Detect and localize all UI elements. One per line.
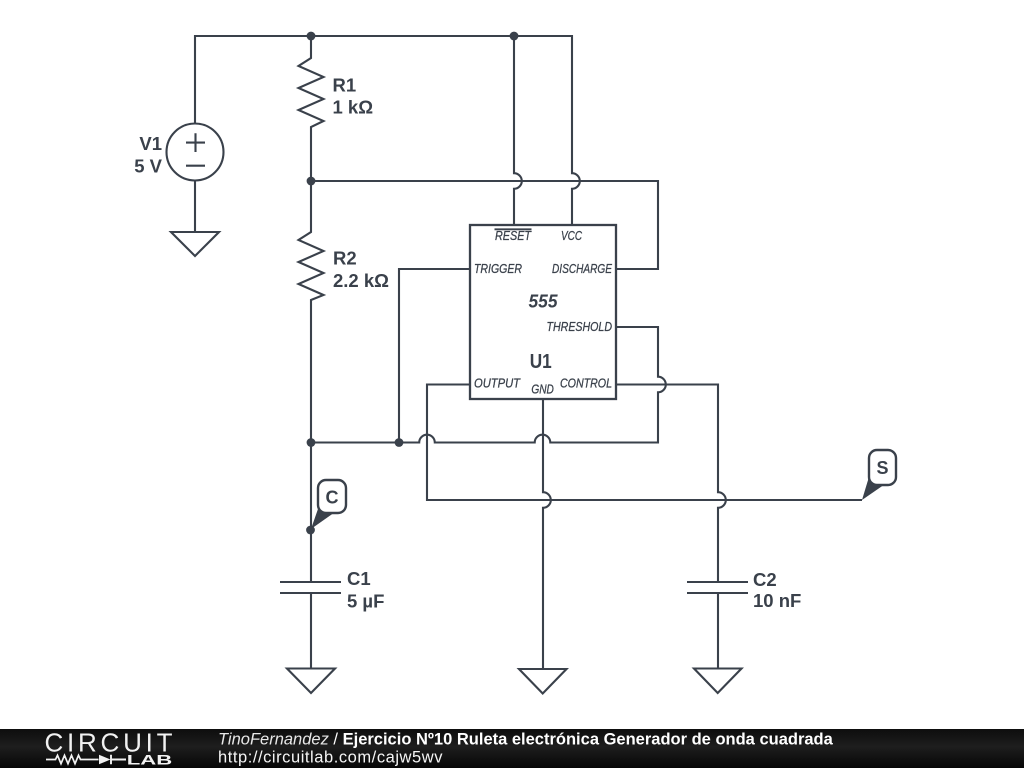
svg-text:OUTPUT: OUTPUT	[474, 375, 521, 390]
svg-text:R2: R2	[333, 248, 357, 269]
svg-text:DISCHARGE: DISCHARGE	[552, 261, 612, 276]
svg-text:5 V: 5 V	[134, 156, 162, 177]
svg-text:V1: V1	[139, 133, 162, 154]
svg-text:TRIGGER: TRIGGER	[474, 261, 522, 276]
svg-text:U1: U1	[530, 351, 552, 373]
svg-text:10 nF: 10 nF	[753, 590, 801, 611]
svg-text:LAB: LAB	[127, 753, 173, 768]
svg-text:R1: R1	[333, 75, 357, 96]
svg-text:C1: C1	[347, 568, 371, 589]
svg-text:C: C	[326, 488, 339, 508]
svg-text:C2: C2	[753, 569, 777, 590]
svg-text:5 µF: 5 µF	[347, 591, 384, 612]
svg-text:S: S	[876, 458, 888, 478]
svg-text:http://circuitlab.com/cajw5wv: http://circuitlab.com/cajw5wv	[218, 749, 443, 767]
svg-text:VCC: VCC	[561, 228, 582, 243]
svg-text:THRESHOLD: THRESHOLD	[547, 319, 613, 334]
svg-text:2.2 kΩ: 2.2 kΩ	[333, 270, 389, 291]
svg-text:TinoFernandez / Ejercicio Nº10: TinoFernandez / Ejercicio Nº10 Ruleta el…	[218, 731, 834, 749]
svg-text:RESET: RESET	[495, 228, 532, 243]
svg-text:555: 555	[529, 291, 559, 312]
svg-text:1 kΩ: 1 kΩ	[333, 97, 374, 118]
svg-text:GND: GND	[531, 382, 554, 397]
svg-text:CONTROL: CONTROL	[560, 375, 612, 390]
